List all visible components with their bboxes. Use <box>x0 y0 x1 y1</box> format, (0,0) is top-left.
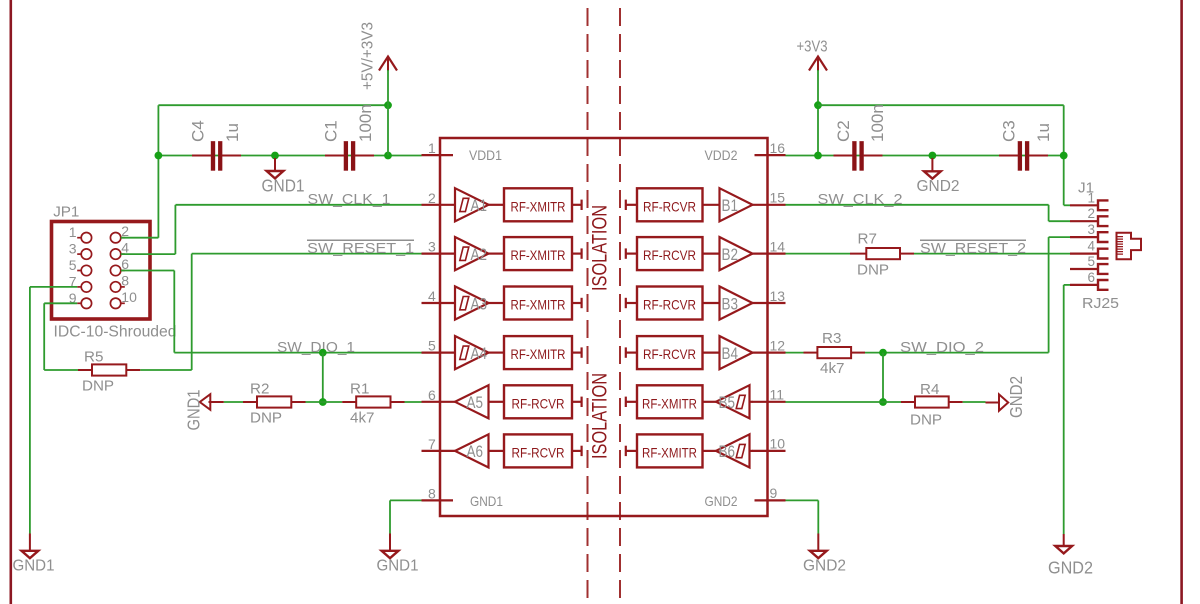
op-amp U1 isolation IC body <box>440 138 768 516</box>
svg-text:SW_RESET_1: SW_RESET_1 <box>307 240 414 257</box>
svg-text:DNP: DNP <box>910 412 942 429</box>
wire SW_RESET_1 riser <box>191 254 193 370</box>
isolation barrier dashed line left <box>587 0 589 604</box>
wire SW_CLK_2 to J1 pin2 <box>1049 220 1070 222</box>
capacitor C2 left stub <box>834 155 853 157</box>
wire JP1 pin7 riser to GND1 <box>29 287 31 534</box>
svg-text:C1: C1 <box>322 120 341 142</box>
J1 pin 4 contact bracket <box>1098 249 1109 259</box>
svg-text:RF-RCVR: RF-RCVR <box>643 346 696 362</box>
RF-XMITR box A1 <box>504 188 572 221</box>
RF-RCVR box B2 <box>637 237 703 270</box>
junction VDD1 row at +5V riser <box>384 152 392 160</box>
svg-text:DNP: DNP <box>250 409 282 426</box>
buffer A5 triangle <box>455 385 489 418</box>
JP1 pin 6 stub <box>121 270 125 272</box>
svg-text:12: 12 <box>770 337 786 353</box>
svg-text:4k7: 4k7 <box>820 360 845 377</box>
barrier tick B3 <box>625 298 627 308</box>
wire VDD1 row <box>158 155 421 157</box>
JP1 pin 1 stub <box>77 237 81 239</box>
pin stub inner B5 <box>750 401 753 403</box>
svg-text:VDD1: VDD1 <box>469 147 502 163</box>
pin 13 stub <box>752 302 786 304</box>
resistor R5 body <box>92 364 126 375</box>
wire R1 to IC pin6 <box>405 401 422 403</box>
svg-text:9: 9 <box>770 485 778 501</box>
pin 12 stub <box>752 352 786 354</box>
frame left border <box>10 0 13 604</box>
resistor R5 right stub <box>126 369 140 371</box>
svg-text:R1: R1 <box>350 381 369 398</box>
wire RF-XMITR box to buffer B5 <box>703 401 717 403</box>
J1 pin 6 contact bracket <box>1098 280 1109 290</box>
svg-text:10: 10 <box>121 289 137 305</box>
junction VDD1 row at x158 <box>155 152 163 160</box>
net label SW_RESET_2 overbar <box>920 239 1026 241</box>
svg-text:5: 5 <box>1087 254 1095 269</box>
svg-text:RF-XMITR: RF-XMITR <box>511 198 566 214</box>
svg-text:RJ25: RJ25 <box>1082 295 1119 312</box>
svg-text:C2: C2 <box>834 120 853 142</box>
svg-text:DNP: DNP <box>857 262 889 279</box>
svg-text:SW_CLK_2: SW_CLK_2 <box>818 191 903 208</box>
svg-text:8: 8 <box>428 485 436 501</box>
barrier tick B6 <box>625 446 627 456</box>
ground GND2 tap stub <box>931 158 933 171</box>
RF-RCVR box A5 <box>504 385 572 418</box>
svg-text:GND2: GND2 <box>1048 558 1093 578</box>
svg-text:R7: R7 <box>858 230 877 247</box>
buffer B4 triangle <box>720 336 753 369</box>
ground GND1 stub below pin8 <box>389 534 391 551</box>
svg-text:11: 11 <box>770 387 785 403</box>
svg-text:GND1: GND1 <box>262 176 305 196</box>
wire RF-XMITR A1 to barrier <box>572 204 582 206</box>
svg-text:RF-RCVR: RF-RCVR <box>643 297 696 313</box>
barrier tick A5 <box>580 397 582 407</box>
svg-text:100n: 100n <box>356 104 375 142</box>
isolation barrier dashed line right <box>619 0 621 604</box>
J1 pin 3 contact bracket <box>1098 232 1109 242</box>
resistor R1 left stub <box>342 401 356 403</box>
ground GND2 symbol below C row <box>924 171 941 178</box>
capacitor C2 left plate <box>852 141 856 170</box>
net label SW_RESET_1 overbar <box>307 239 414 241</box>
ground GND1 tap stub <box>274 158 276 171</box>
barrier tick B1 <box>625 200 627 210</box>
wire R3 to SW_DIO_2 riser <box>865 352 1049 354</box>
svg-text:B2: B2 <box>722 246 739 264</box>
svg-text:1: 1 <box>69 224 77 240</box>
wire +5V rail top horizontal <box>158 104 388 106</box>
ground GND2 symbol below pin9 <box>810 551 827 558</box>
wire barrier to RF-RCVR box B1 <box>626 204 637 206</box>
svg-text:1: 1 <box>428 140 436 156</box>
JP1 pin 7 circle <box>81 282 91 292</box>
ground GND1 pin stub red <box>209 401 224 403</box>
wire SW_CLK_1 horizontal <box>176 204 422 206</box>
wire riser SW_DIO_1 to R1/R2 row <box>322 353 324 402</box>
wire riser SW_DIO_2 to R4 row <box>882 353 884 402</box>
svg-text:1: 1 <box>1087 190 1095 205</box>
frame right border <box>1180 0 1183 604</box>
svg-text:GND1: GND1 <box>470 493 503 509</box>
buffer A2 triangle <box>455 237 489 270</box>
resistor R3 body <box>817 347 851 358</box>
wire JP1 pin9 riser to R5 <box>43 303 45 370</box>
wire A5 triangle to RF-RCVR box <box>489 401 505 403</box>
pin 7 stub <box>422 450 457 452</box>
svg-text:RF-XMITR: RF-XMITR <box>511 297 566 313</box>
wire R2 to junction <box>306 401 323 403</box>
wire RF-XMITR A4 to barrier <box>572 352 582 354</box>
svg-text:A4: A4 <box>471 345 488 363</box>
svg-text:GND2: GND2 <box>803 558 846 575</box>
buffer A6 triangle <box>455 434 489 467</box>
svg-text:13: 13 <box>770 288 786 304</box>
junction VDD2 row at right riser <box>1060 152 1068 160</box>
barrier tick B4 <box>625 347 627 357</box>
svg-text:1u: 1u <box>1034 123 1053 142</box>
resistor R2 right stub <box>291 401 305 403</box>
wire RF-RCVR A6 to barrier <box>572 450 582 452</box>
wire junction to R4 <box>883 401 901 403</box>
barrier tick B5 <box>625 397 627 407</box>
wire SW_DIO_1 horizontal <box>174 352 421 354</box>
ground GND1 stub far left <box>29 534 31 551</box>
barrier tick A1 <box>580 200 582 210</box>
svg-text:B1: B1 <box>722 197 739 215</box>
resistor R4 right stub <box>949 401 963 403</box>
wire RF-RCVR box to buffer B3 <box>703 302 720 304</box>
capacitor C1 left plate <box>344 141 348 170</box>
wire junction to R1 <box>323 401 342 403</box>
svg-text:RF-XMITR: RF-XMITR <box>642 444 697 460</box>
JP1 pin 9 circle <box>81 298 91 308</box>
wire R4 to GND2 <box>963 401 986 403</box>
wire to J1 pin3 <box>1049 236 1070 238</box>
buffer A4 hysteresis glyph <box>460 346 469 359</box>
RF-RCVR box B1 <box>637 188 703 221</box>
pin 4 stub <box>422 302 457 304</box>
resistor R7 left stub <box>850 253 866 255</box>
buffer A1 hysteresis glyph <box>460 198 469 211</box>
svg-text:GND2: GND2 <box>1006 376 1026 418</box>
wire barrier to RF-RCVR box B4 <box>626 352 637 354</box>
capacitor C1 right plate <box>351 141 355 170</box>
RF-XMITR box A4 <box>504 336 572 369</box>
svg-text:RF-RCVR: RF-RCVR <box>512 395 565 411</box>
barrier tick B2 <box>625 248 627 258</box>
svg-text:A3: A3 <box>471 295 488 313</box>
ground GND1 symbol far left <box>22 551 39 558</box>
JP1 pin 3 circle <box>81 249 91 259</box>
pin 11 stub <box>752 401 786 403</box>
RF-XMITR box A2 <box>504 237 572 270</box>
junction R1/R2 row <box>319 398 327 406</box>
svg-text:+5V/+3V3: +5V/+3V3 <box>360 22 377 90</box>
svg-text:10: 10 <box>770 436 786 452</box>
ground GND1 symbol below C row <box>267 171 284 178</box>
pin 6 stub <box>422 401 457 403</box>
ground GND2 symbol right-pointing at R4 <box>999 394 1008 410</box>
svg-text:IDC-10-Shrouded: IDC-10-Shrouded <box>54 324 177 341</box>
wire SW_RESET_1 horizontal <box>192 253 422 255</box>
capacitor C2 right stub <box>863 155 882 157</box>
wire A1 triangle to RF-XMITR box <box>489 204 505 206</box>
resistor R4 left stub <box>901 401 915 403</box>
barrier tick A2 <box>580 248 582 258</box>
wire JP1 pin2 riser <box>157 105 159 238</box>
buffer B6 hysteresis glyph <box>736 444 745 457</box>
svg-text:RF-XMITR: RF-XMITR <box>511 346 566 362</box>
resistor R2 left stub <box>243 401 257 403</box>
pin 1 stub <box>422 154 454 156</box>
wire RF-RCVR A5 to barrier <box>572 401 582 403</box>
ground GND1 symbol left-pointing at R2 <box>200 394 211 410</box>
wire +3V3 rail top horizontal <box>818 104 1064 106</box>
wire J1 pin6 riser to GND2 <box>1063 285 1065 534</box>
JP1 pin 10 stub <box>121 302 125 304</box>
resistor R1 right stub <box>391 401 405 403</box>
JP1 pin 2 stub <box>121 237 125 239</box>
wire IC pin11 to junction <box>786 401 884 403</box>
svg-text:JP1: JP1 <box>53 204 79 221</box>
svg-text:C3: C3 <box>1000 120 1019 142</box>
barrier tick A4 <box>580 347 582 357</box>
barrier tick A6 <box>580 446 582 456</box>
capacitor C4 left stub <box>192 155 212 157</box>
svg-text:B6: B6 <box>719 443 736 461</box>
RF-RCVR box B3 <box>637 287 703 320</box>
buffer B1 triangle <box>720 188 753 221</box>
wire A2 triangle to RF-XMITR box <box>489 253 505 255</box>
JP1 pin 8 circle <box>110 282 120 292</box>
svg-text:GND1: GND1 <box>377 558 419 575</box>
wire IC pin9 horizontal <box>786 499 819 501</box>
JP1 pin 9 stub <box>77 302 81 304</box>
wire A4 triangle to RF-XMITR box <box>489 352 505 354</box>
svg-text:R2: R2 <box>250 381 269 398</box>
J1 pin 6 stub <box>1070 284 1098 286</box>
wire JP1 pin6 horizontal <box>121 270 175 272</box>
resistor R5 left stub <box>78 369 92 371</box>
J1 pin 2 contact bracket <box>1098 216 1109 226</box>
pin 5 stub <box>422 352 457 354</box>
buffer A4 triangle <box>455 336 489 369</box>
svg-text:C4: C4 <box>189 120 208 142</box>
J1 pin 5 stub <box>1070 268 1098 270</box>
ground GND2 pin stub red <box>986 402 1000 404</box>
RF-RCVR box A6 <box>504 434 572 467</box>
pin 8 stub <box>422 499 454 501</box>
capacitor C3 right stub <box>1029 155 1048 157</box>
power symbol +3V3 shaft red <box>817 57 819 71</box>
wire RF-XMITR A2 to barrier <box>572 253 582 255</box>
svg-text:B5: B5 <box>719 394 736 412</box>
svg-text:6: 6 <box>428 387 436 403</box>
J1 pin 2 stub <box>1070 220 1098 222</box>
resistor R7 body <box>866 248 900 259</box>
wire JP1 pin2 horizontal <box>121 237 159 239</box>
buffer A3 hysteresis glyph <box>460 297 469 310</box>
JP1 pin 4 circle <box>110 249 120 259</box>
pin 15 stub <box>752 204 786 206</box>
wire A3 triangle to RF-XMITR box <box>489 302 505 304</box>
capacitor C1 left stub <box>325 155 344 157</box>
wire IC pin12 to R3 <box>786 352 804 354</box>
svg-text:SW_CLK_1: SW_CLK_1 <box>308 191 391 208</box>
buffer B5 hysteresis glyph <box>736 395 745 408</box>
wire IC pin14 to R7 <box>786 253 851 255</box>
svg-text:5: 5 <box>428 338 436 354</box>
JP1 pin 1 circle <box>81 233 91 243</box>
JP1 pin 6 circle <box>110 265 120 275</box>
svg-text:GND2: GND2 <box>917 178 960 195</box>
ground GND1 symbol below pin8 <box>382 551 399 558</box>
RF-XMITR box B6 <box>637 434 703 467</box>
wire +3V3 rail right riser to J1 pin1 <box>1063 105 1065 205</box>
svg-text:14: 14 <box>770 238 786 254</box>
wire +5V shaft to rail <box>387 70 389 156</box>
pin stub inner B6 <box>750 450 753 452</box>
JP1 pin 5 circle <box>81 265 91 275</box>
svg-text:ISOLATION: ISOLATION <box>589 205 612 291</box>
svg-text:GND2: GND2 <box>705 493 738 509</box>
wire A6 triangle to RF-RCVR box <box>489 450 505 452</box>
svg-text:2: 2 <box>1087 206 1095 221</box>
JP1 pin 3 stub <box>77 253 81 255</box>
resistor R3 left stub <box>804 352 818 354</box>
svg-text:100n: 100n <box>868 104 887 142</box>
JP1 pin 10 circle <box>110 298 120 308</box>
junction +5V rail corner <box>384 101 392 109</box>
wire SW_DIO_2 riser to J1 pin3 <box>1048 237 1050 353</box>
svg-text:A2: A2 <box>471 246 488 264</box>
JP1 pin 2 circle <box>110 233 120 243</box>
svg-text:8: 8 <box>121 272 129 288</box>
wire IC pin8 horizontal <box>390 499 422 501</box>
wire riser to R5 left <box>44 369 78 371</box>
svg-text:A5: A5 <box>467 394 484 412</box>
pin 2 stub <box>422 204 457 206</box>
svg-text:3: 3 <box>1087 222 1095 237</box>
junction SW_DIO_1 at R1/R2 riser <box>319 349 327 357</box>
resistor R2 body <box>257 396 291 407</box>
wire IC pin8 riser to GND1 <box>389 500 391 533</box>
junction +3V3 rail corner <box>814 101 822 109</box>
wire RF-XMITR A3 to barrier <box>572 302 582 304</box>
svg-text:SW_DIO_2: SW_DIO_2 <box>900 339 984 356</box>
junction VDD2 row at GND2 tap <box>929 152 937 160</box>
wire barrier to RF-RCVR box B2 <box>626 253 637 255</box>
capacitor C4 right plate <box>218 141 222 170</box>
wire barrier to RF-XMITR box B5 <box>626 401 637 403</box>
resistor R3 right stub <box>851 352 865 354</box>
buffer B5 triangle <box>716 385 750 418</box>
capacitor C4 left plate <box>211 141 215 170</box>
junction VDD1 row at GND1 tap <box>271 152 279 160</box>
J1 pin 1 stub <box>1070 204 1098 206</box>
pin 3 stub <box>422 253 457 255</box>
svg-text:B3: B3 <box>722 295 739 313</box>
svg-text:+3V3: +3V3 <box>797 39 828 56</box>
svg-text:2: 2 <box>428 190 436 206</box>
JP1 pin 7 stub <box>77 286 81 288</box>
resistor R4 body <box>915 396 949 407</box>
svg-text:RF-RCVR: RF-RCVR <box>643 247 696 263</box>
wire IC pin9 riser to GND2 <box>817 500 819 533</box>
wire +3V3 shaft down <box>817 70 819 156</box>
svg-text:15: 15 <box>770 190 786 206</box>
JP1 pin 4 stub <box>121 253 125 255</box>
buffer B2 triangle <box>720 237 753 270</box>
wire SW_DIO_1 riser from JP1 pin6 <box>173 271 175 353</box>
wire GND1 to R2 <box>224 401 243 403</box>
wire JP1 pin7 horizontal <box>30 286 77 288</box>
svg-text:A6: A6 <box>467 443 484 461</box>
buffer A3 triangle <box>455 286 489 319</box>
svg-text:DNP: DNP <box>82 377 114 394</box>
svg-text:B4: B4 <box>722 345 739 363</box>
J1 pin 1 contact bracket <box>1098 200 1109 210</box>
svg-text:4k7: 4k7 <box>350 409 375 426</box>
wire SW_CLK_2 jog down <box>1048 205 1050 221</box>
svg-text:GND1: GND1 <box>184 390 204 431</box>
wire JP1 pin4 horizontal <box>121 253 176 255</box>
svg-text:4: 4 <box>428 288 436 304</box>
svg-text:3: 3 <box>428 239 436 255</box>
svg-text:GND1: GND1 <box>13 558 55 575</box>
capacitor C4 right stub <box>222 155 241 157</box>
ground GND2 symbol far right <box>1055 546 1072 553</box>
buffer B3 triangle <box>720 286 753 319</box>
svg-text:16: 16 <box>770 140 786 156</box>
capacitor C2 right plate <box>860 141 864 170</box>
RF-XMITR box A3 <box>504 287 572 320</box>
svg-text:4: 4 <box>1087 239 1095 254</box>
buffer A1 triangle <box>455 188 489 221</box>
power symbol +5V/+3V3 shaft red <box>387 57 389 71</box>
J1 pin 3 stub <box>1070 236 1098 238</box>
ground GND2 stub below pin9 <box>817 534 819 551</box>
wire to J1 pin1 <box>1064 204 1070 206</box>
wire SW_CLK_1 riser to JP1 pin4 <box>174 205 176 254</box>
barrier tick A3 <box>580 298 582 308</box>
wire R5 to SW_RESET_1 riser <box>140 369 191 371</box>
svg-text:3: 3 <box>69 241 77 257</box>
pin 14 stub <box>752 253 786 255</box>
wire RF-RCVR box to buffer B2 <box>703 253 720 255</box>
wire J1 pin6 horizontal <box>1064 284 1070 286</box>
svg-text:R4: R4 <box>920 381 939 398</box>
pin 10 stub <box>752 450 786 452</box>
capacitor C3 right plate <box>1025 141 1029 170</box>
pin 16 stub <box>755 154 786 156</box>
svg-text:SW_DIO_1: SW_DIO_1 <box>277 339 355 356</box>
svg-text:6: 6 <box>1087 270 1095 285</box>
svg-text:R3: R3 <box>822 330 841 347</box>
connector JP1 body <box>52 222 151 320</box>
junction VDD2 row at +3V3 riser <box>814 152 822 160</box>
pin 9 stub <box>755 499 786 501</box>
svg-text:R5: R5 <box>84 349 103 366</box>
svg-text:RF-RCVR: RF-RCVR <box>512 444 565 460</box>
svg-text:RF-RCVR: RF-RCVR <box>643 198 696 214</box>
capacitor C1 right stub <box>355 155 374 157</box>
svg-text:5: 5 <box>69 257 77 273</box>
